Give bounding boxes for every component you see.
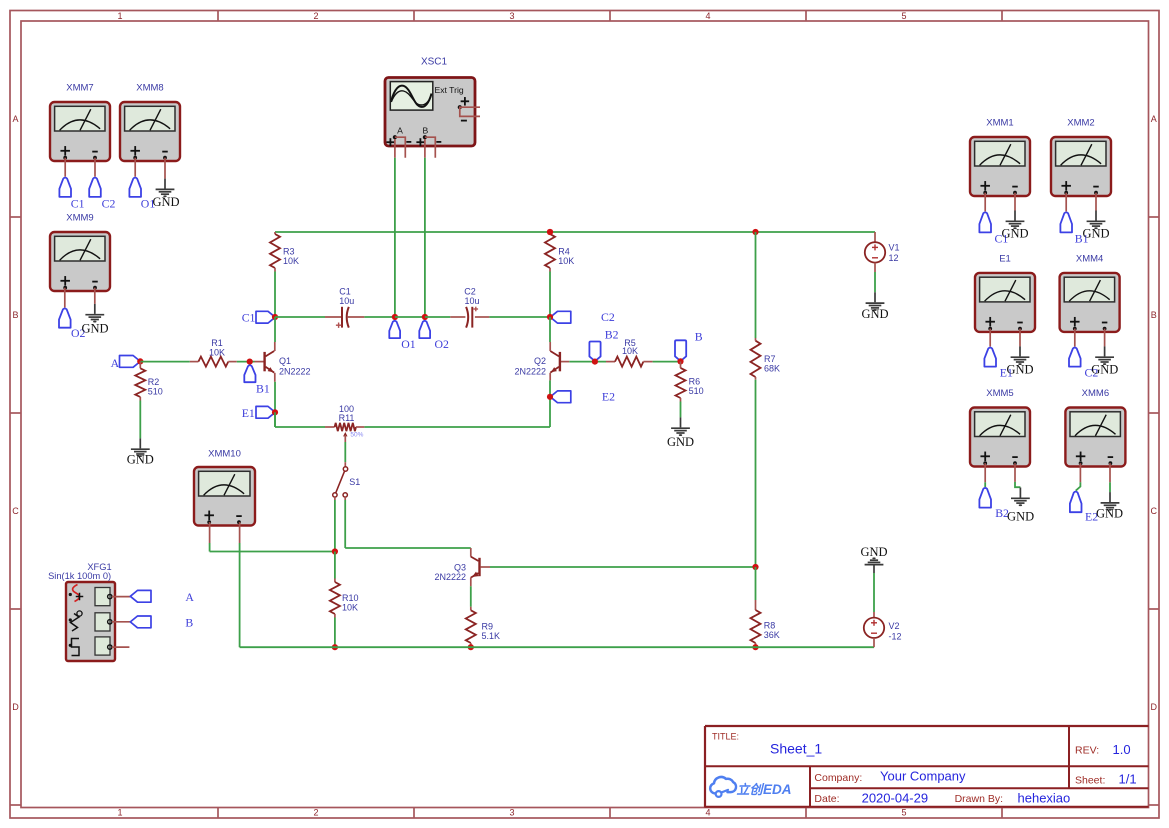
ground above V2 [860,545,887,573]
svg-text:C1: C1 [242,311,256,325]
capacitor C1 [325,287,364,328]
wire Q2 base to B2 [569,361,606,363]
wire R10 to rail [334,618,336,648]
svg-text:2: 2 [313,11,318,21]
svg-text:XMM6: XMM6 [1082,388,1109,399]
svg-text:GND: GND [861,307,888,321]
wire C1 node to Q1 collector [274,317,276,342]
node R7 rail junction [752,229,758,235]
top rail wire [275,231,875,233]
wire C1 node to capacitor [275,316,325,318]
ground at XMM4 [1091,329,1118,377]
probe B [675,330,703,361]
svg-text:E2: E2 [602,390,615,404]
svg-text:10u: 10u [464,296,479,306]
svg-text:3: 3 [509,808,514,818]
wire node to R8 [755,567,757,600]
oscilloscope XSC1 [385,78,480,158]
svg-text:GND: GND [81,321,108,335]
svg-text:GND: GND [1001,227,1028,241]
probe O2 [419,321,449,351]
multimeter XMM1 [970,118,1030,197]
switch S1 [333,467,361,497]
svg-text:A: A [185,590,194,604]
svg-text:3: 3 [509,11,514,21]
svg-text:B1: B1 [256,381,270,395]
svg-text:Your Company: Your Company [880,769,966,784]
svg-text:C: C [1150,506,1157,516]
potentiometer R11 [325,404,364,442]
svg-text:C2: C2 [464,287,476,297]
svg-text:XMM10: XMM10 [208,449,241,460]
probe C2 at XMM4 [1069,329,1098,380]
resistor R2 [135,361,163,400]
wire C2 node to Q2 collector [549,317,551,342]
capacitor C2 [450,287,489,328]
ground at XMM9 [81,288,108,336]
svg-text:510: 510 [148,387,163,397]
resistor R10 [330,552,359,618]
wire Q1 emitter to E1 [274,382,276,427]
probe E2 at XMM6 [1070,463,1098,523]
svg-text:XMM7: XMM7 [66,82,93,93]
svg-text:Drawn By:: Drawn By: [955,793,1003,805]
svg-text:50%: 50% [350,432,363,439]
wire R11 wiper to S1 [344,442,346,467]
multimeter XMM4 [1060,253,1120,332]
wire C2 to C2 node [489,316,550,318]
svg-text:XMM4: XMM4 [1076,253,1103,264]
resistor R6 [676,361,704,401]
pin stub minus of XFG1 [112,646,129,648]
wire V1 to ground [874,272,876,292]
svg-text:5.1K: 5.1K [482,631,501,641]
svg-text:S1: S1 [349,477,360,487]
probe O1 at XMM8 [129,158,155,211]
probe B1 at XMM2 [1060,193,1088,246]
svg-text:1: 1 [117,808,122,818]
node E1 junction [272,409,278,415]
svg-text:XMM2: XMM2 [1067,118,1094,129]
svg-text:2N2222: 2N2222 [514,366,546,376]
svg-text:R7: R7 [764,354,776,364]
ground at XMM1 [1001,193,1028,241]
ground at V1 [861,292,888,321]
transistor Q1 [255,342,311,382]
svg-text:B2: B2 [605,327,619,341]
svg-text:Ext Trig: Ext Trig [435,85,464,95]
ground at R6 [667,417,694,449]
svg-text:GND: GND [1006,362,1033,376]
svg-text:10u: 10u [339,296,354,306]
wire rail to R7 [755,232,757,338]
svg-text:C: C [12,506,19,516]
svg-text:2N2222: 2N2222 [434,572,466,582]
resistor R7 [751,338,781,380]
svg-text:4: 4 [705,808,710,818]
node B2 junction [592,359,598,365]
node XMM10 junction [332,548,338,554]
node Q3 base junction [752,564,758,570]
svg-text:O2: O2 [435,337,450,351]
node E2 junction [547,394,553,400]
function generator XFG1 [66,582,115,661]
svg-text:V1: V1 [889,243,900,253]
svg-text:2020-04-29: 2020-04-29 [862,790,929,805]
resistor R9 [466,607,500,648]
svg-text:B: B [423,125,429,135]
svg-text:5: 5 [901,11,906,21]
svg-text:10K: 10K [622,346,638,356]
multimeter XMM10 [194,449,255,526]
svg-text:B: B [1151,310,1157,320]
svg-text:立创: 立创 [737,782,765,797]
svg-text:C2: C2 [601,310,615,324]
voltage source V2 [864,612,902,647]
svg-text:GND: GND [1007,509,1034,523]
resistor R8 [751,600,780,647]
svg-text:XMM8: XMM8 [136,82,163,93]
svg-text:C2: C2 [102,196,116,210]
multimeter XMM9 [50,212,110,291]
transistor Q2 [514,342,569,380]
multimeter XMM5 [970,388,1030,467]
svg-text:E1: E1 [999,253,1011,264]
svg-text:XMM9: XMM9 [66,212,93,223]
wire S1 right to Q3 [345,497,471,548]
svg-text:O1: O1 [401,337,416,351]
wire O2 to C2 [425,316,450,318]
net flag C2 at Q2 [550,310,615,324]
svg-text:EDA: EDA [763,782,792,797]
svg-text:R4: R4 [558,247,570,257]
node C2 junction [547,314,553,320]
node O2 junction [422,314,428,320]
wire E1 to R11 row [275,412,325,427]
svg-text:1.0: 1.0 [1113,742,1131,757]
wire R5 to B node [653,361,681,363]
svg-text:1/1: 1/1 [1119,771,1137,786]
svg-text:2: 2 [313,808,318,818]
svg-text:Sin(1k 100m 0): Sin(1k 100m 0) [48,571,111,581]
svg-text:10K: 10K [209,348,225,358]
resistor R3 [270,232,299,272]
wire Q3 emitter to R9 [470,586,472,606]
svg-text:10K: 10K [283,256,299,266]
node C1 junction [272,314,278,320]
svg-text:D: D [12,702,19,712]
svg-text:Company:: Company: [814,772,862,784]
multimeter XMM2 [1051,118,1111,197]
svg-text:Sheet:: Sheet: [1075,774,1105,786]
probe E1 at meter E1 [984,329,1013,380]
ground at meter E1 [1006,329,1033,377]
multimeter XMM8 [120,82,180,161]
net flag A at XFG1 [130,590,194,604]
svg-text:R2: R2 [148,377,160,387]
svg-text:-12: -12 [889,632,902,642]
svg-text:B: B [185,615,193,629]
ground at XMM8 [152,158,179,210]
wire ground to V2 [873,573,875,612]
node R8 rail junction [752,644,758,650]
node A junction [137,358,143,364]
probe O2 at XMM9 [59,288,86,341]
svg-text:R6: R6 [689,377,701,387]
multimeter XMM7 [50,82,110,161]
svg-text:Date:: Date: [814,793,839,805]
svg-text:Q1: Q1 [279,356,291,366]
wire Q2 emitter to E2 [549,380,551,427]
svg-text:GND: GND [667,435,694,449]
probe C2 at XMM7 [89,158,115,211]
svg-text:V2: V2 [889,621,900,631]
svg-text:B: B [695,330,703,344]
bottom rail wire [240,646,874,648]
probe B1 [244,365,270,395]
svg-text:R11: R11 [339,413,355,423]
wire R11 to E2 column [364,426,550,428]
svg-text:B: B [12,310,18,320]
net flag E1 at Q1 [242,406,276,420]
svg-text:Q2: Q2 [534,356,546,366]
svg-text:5: 5 [901,808,906,818]
ground at XMM5 [1007,463,1034,523]
label XSC1 [421,56,448,67]
node R4 rail junction [547,229,553,235]
svg-text:R10: R10 [342,593,359,603]
svg-text:R1: R1 [211,338,223,348]
multimeter E1 [975,253,1035,332]
ground at XMM6 [1096,463,1123,520]
resistor R1 [190,338,237,367]
pin stub A of XFG1 [112,596,130,598]
wire R4 to C2 node [549,272,551,318]
svg-text:XMM5: XMM5 [986,388,1013,399]
svg-text:hehexiao: hehexiao [1018,790,1071,805]
title block [705,726,1149,808]
wire XMM10 plus to node [210,522,335,551]
probe C1 at XMM7 [59,158,84,211]
node R9 rail junction [468,644,474,650]
svg-text:10K: 10K [342,603,358,613]
svg-text:E1: E1 [242,406,255,420]
svg-text:REV:: REV: [1075,745,1099,757]
multimeter XMM6 [1065,388,1125,467]
node R10 rail junction [332,644,338,650]
svg-text:36K: 36K [764,630,780,640]
svg-text:10K: 10K [558,256,574,266]
svg-text:XSC1: XSC1 [421,56,448,67]
net flag E2 at Q2 [550,390,615,404]
wire S1 left to R10 [334,497,336,551]
svg-text:R9: R9 [482,622,494,632]
svg-text:TITLE:: TITLE: [712,732,739,742]
svg-text:1: 1 [117,11,122,21]
node B junction [677,358,683,364]
svg-text:R8: R8 [764,621,776,631]
wire R7 to Q3 node [755,380,757,567]
probe B2 [589,327,618,361]
wire A to R1 [140,361,190,363]
svg-text:A: A [397,125,403,135]
svg-text:A: A [12,114,18,124]
svg-text:D: D [1150,702,1157,712]
ground at XMM2 [1082,193,1109,241]
resistor R5 [606,338,653,367]
svg-text:GND: GND [1082,227,1109,241]
wire O1 to O2 [395,316,425,318]
svg-text:68K: 68K [764,364,780,374]
svg-text:510: 510 [689,386,704,396]
svg-text:GND: GND [127,453,154,467]
net flag A at R2 [111,356,141,371]
svg-text:GND: GND [1096,506,1123,520]
svg-text:GND: GND [1091,362,1118,376]
wire scope A to O1 [394,158,396,317]
wire Q3 base to R7 node [490,566,756,568]
svg-text:12: 12 [889,253,899,263]
wire scope B to O2 [424,158,426,317]
svg-text:C1: C1 [71,196,85,210]
transistor Q3 [434,548,490,586]
probe B2 at XMM5 [979,463,1009,520]
ground at R2 [127,438,154,466]
pin stub B of XFG1 [112,621,130,623]
wire R6 to ground [680,402,682,418]
label XFG1 [48,562,112,581]
resistor R4 [545,229,574,272]
net flag B at XFG1 [130,615,193,629]
LCEDA logo [710,777,791,797]
svg-text:XMM1: XMM1 [986,118,1013,129]
svg-text:GND: GND [860,545,887,559]
wire R2 to ground [139,401,141,439]
wire C1 to O1 [364,316,395,318]
voltage source V1 [865,232,900,272]
wire XMM10 minus to rail [239,522,241,647]
net flag C1 at Q1 [242,311,276,325]
wire R1 to Q1 base [237,361,255,363]
node Q1 base junction [247,359,253,365]
svg-text:2N2222: 2N2222 [279,366,311,376]
svg-text:4: 4 [705,11,710,21]
probe O1 [389,321,415,351]
wire R3 to C1 node [274,272,276,318]
node O1 junction [392,314,398,320]
svg-text:Sheet_1: Sheet_1 [770,741,822,757]
probe C1 at XMM1 [979,193,1008,246]
svg-text:A: A [1151,114,1157,124]
svg-text:R3: R3 [283,247,295,257]
svg-text:A: A [111,356,120,370]
svg-text:GND: GND [152,195,179,209]
